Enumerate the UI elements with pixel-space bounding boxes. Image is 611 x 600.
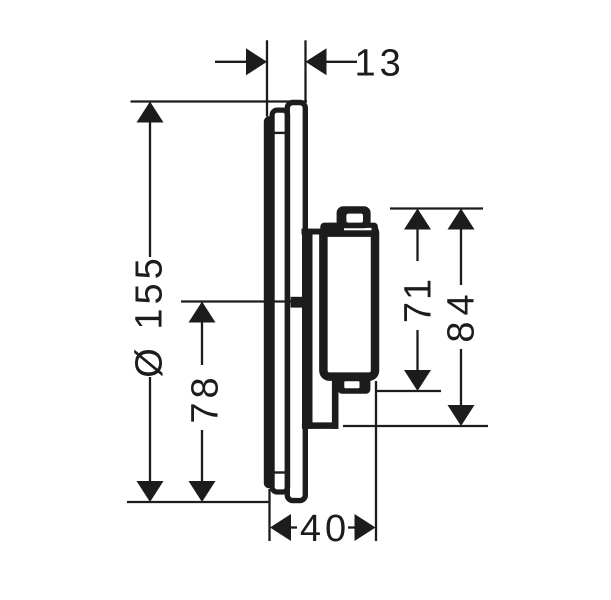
dim line 71 seg1 [416, 210, 418, 261]
svg-text:84: 84 [441, 288, 483, 342]
button inner white [346, 214, 363, 223]
plate tick bottom [275, 471, 286, 473]
svg-text:Ø 155: Ø 155 [129, 254, 171, 378]
arrow 40 left (points left) [270, 514, 291, 541]
dim line 78 seg2 [201, 430, 203, 500]
dim line 40 left tail [284, 526, 297, 528]
dim line O155 seg1 [149, 103, 151, 257]
dim line 40 right tail [348, 526, 362, 528]
ext line top right (71/84) [390, 207, 483, 209]
dim line O155 seg2 [149, 377, 151, 500]
svg-text:71: 71 [398, 277, 440, 323]
dim line 71 seg2 [416, 330, 418, 389]
centerline (78 top) [181, 300, 302, 302]
pipe bottom bar [302, 422, 339, 429]
arrow 13 left (points right) [246, 48, 267, 75]
ext line bottom (O155/78) [127, 501, 271, 503]
arrow 71 up [404, 209, 431, 230]
cup white notch [344, 381, 359, 388]
connector band [302, 229, 323, 235]
svg-text:13: 13 [355, 43, 405, 85]
plate tick top [275, 132, 286, 134]
plate back bar S1 [264, 116, 275, 488]
dim line 84 seg1 [460, 210, 462, 285]
svg-text:78: 78 [185, 373, 227, 423]
arrow 78 up [189, 302, 216, 323]
body outline [323, 227, 375, 377]
arrow 84 up [448, 209, 475, 230]
arrow O155 down [137, 481, 164, 502]
bracket bar [302, 229, 313, 429]
pipe vertical [332, 378, 339, 429]
dim line 84 seg2 [460, 349, 462, 424]
flange white sliver [344, 228, 372, 230]
arrow 13 right (points left) [306, 48, 327, 75]
dim line 13 right tail [324, 61, 357, 63]
dim line 78 seg1 [201, 303, 203, 365]
arrow 78 down [189, 481, 216, 502]
svg-text:40: 40 [300, 508, 350, 550]
ext line top (O155) [131, 100, 308, 102]
ext line 40 left [268, 489, 270, 541]
arrow 84 down [448, 405, 475, 426]
button [337, 206, 371, 228]
ext line 13 right [304, 40, 306, 102]
bottom cup [338, 376, 371, 394]
spindle blob [291, 297, 303, 308]
arrow 40 right (points right) [355, 514, 376, 541]
plate mid outline P1 [272, 110, 288, 492]
ext line 13 left [266, 40, 268, 116]
arrow O155 up [137, 102, 164, 123]
ext line 84 bottom [343, 425, 488, 427]
body flange [320, 223, 378, 237]
ext line 71 bottom [376, 390, 441, 392]
ext line 40 right [375, 381, 377, 541]
front cover outline P2 [287, 103, 305, 501]
arrow 71 down [404, 370, 431, 391]
dim line 13 left tail [215, 61, 248, 63]
